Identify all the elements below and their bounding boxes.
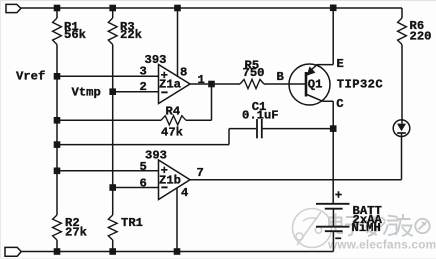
capacitor C1 [256,119,258,138]
svg-text:0.1uF: 0.1uF [242,108,279,122]
wire C1 stub down-left [228,129,230,145]
wire pin 4 down [176,188,178,252]
svg-text:E: E [337,57,344,71]
wire pin 5 row [57,170,159,172]
LED D1 circle [393,120,410,137]
svg-text:TIP32C: TIP32C [337,78,383,92]
Z1b minus input [161,186,167,188]
svg-text:6: 6 [140,176,147,190]
wire Z1b output row [190,179,402,181]
node junction (57,144.6) [54,141,61,148]
battery BATT plate 1 [316,203,350,205]
op-amp U1b (Z1b) triangle [159,160,191,200]
node junction (177,251.5) [174,248,181,255]
svg-text:5: 5 [140,160,147,174]
Z1a minus input [161,91,167,93]
wire Vtmp row to pin 2 [113,91,159,93]
wire collector stub [323,101,334,204]
wire C1 right [263,128,334,130]
svg-text:56k: 56k [64,28,86,42]
svg-text:Q1: Q1 [308,77,323,91]
op-amp U1a (Z1a) triangle [159,65,191,104]
node junction (57,251.5) [54,248,61,255]
node junction (57,120.3) [54,117,61,124]
svg-text:2: 2 [140,80,147,94]
svg-text:Z1a: Z1a [159,78,182,92]
node junction (177.5,8) [174,5,181,12]
wire feedback vertical [211,84,213,120]
resistor R2 [53,215,62,240]
resistor R6 [398,18,407,45]
transistor Q1 emitter arrow [307,66,316,75]
svg-text:R4: R4 [166,105,181,119]
node junction (57,76.3) [54,73,61,80]
LED D1 triangle [397,124,406,132]
svg-text:NiMH: NiMH [352,221,381,235]
svg-text:C: C [336,97,343,111]
wire column A lower [56,240,58,252]
node junction (211.5,84) [208,81,215,88]
wire column B middle [112,45,114,216]
wire bottom rail [21,251,334,253]
wire battery mid stub [332,209,334,227]
wire column A middle [56,45,58,216]
wire battery bottom [332,231,334,251]
resistor R4 [161,116,186,125]
wire top rail [21,7,402,9]
wire R6 drop [401,8,403,18]
svg-text:393: 393 [145,149,167,163]
border edge tints [0,0,436,1]
svg-text:4: 4 [181,186,188,200]
svg-text:Vtmp: Vtmp [72,86,101,100]
wire R4 row left [57,119,161,121]
node junction (57,170.8) [54,168,61,175]
input tag top-left [6,4,21,12]
svg-text:220: 220 [410,30,432,44]
battery BATT plate 3 [316,226,350,228]
wire emitter rail [317,8,334,65]
transistor Q1 collector diagonal [307,95,323,102]
wire R4 row right [186,119,212,121]
node junction (112.7,91.7) [109,88,116,95]
svg-text:3: 3 [140,65,147,79]
resistor R5 [240,79,264,88]
svg-text:www.elecfans.com: www.elecfans.com [327,238,436,252]
wire R6 to LED [401,45,403,124]
resistor R1 [53,18,62,45]
thermistor TR1 [108,215,117,240]
svg-text:8: 8 [180,66,187,80]
battery BATT plate 2 [325,208,343,210]
battery minus sign [335,237,341,239]
node junction (112.7,8) [109,5,116,12]
wire pin 8 to top rail [177,8,179,77]
svg-text:393: 393 [145,53,167,67]
node junction (333.2,128.6) [330,125,337,132]
watermark logo circle [293,209,332,248]
battery plus sign [335,191,341,197]
node junction (333.2,7.8) [330,5,337,12]
wire column B upper [112,8,114,18]
wire base [264,83,306,85]
svg-text:7: 7 [197,166,204,180]
wire Z1a output [190,83,240,85]
wire y145 row [57,144,229,146]
wire pin 6 row [113,187,159,189]
svg-text:Vref: Vref [16,70,45,84]
wire column B lower [112,240,114,252]
svg-text:Z1b: Z1b [159,174,181,188]
wire LED to output row [401,133,403,180]
svg-text:47k: 47k [161,126,183,140]
wire Vref row to pin 3 [57,75,159,77]
node junction (112.7,251.5) [109,248,116,255]
svg-text:1: 1 [198,73,205,87]
transistor Q1 emitter diagonal [307,65,317,74]
svg-text:22k: 22k [120,28,142,42]
LED D1 cathode bar [397,132,406,134]
svg-text:TR1: TR1 [121,216,143,230]
wire C1 left [229,128,256,130]
node junction (112.7,187.5) [109,184,116,191]
svg-text:B: B [277,70,285,84]
output tag bottom-left [5,247,21,256]
svg-text:27k: 27k [65,226,87,240]
watermark chinese text 电子发烧友 [329,214,430,237]
node junction (57,8) [54,5,61,12]
wire column A upper [56,8,58,18]
transistor Q1 base bar [305,72,308,97]
transistor Q1 circle [289,64,330,105]
svg-text:750: 750 [243,66,265,80]
resistor R3 [108,18,117,45]
battery BATT plate 4 [325,230,343,232]
